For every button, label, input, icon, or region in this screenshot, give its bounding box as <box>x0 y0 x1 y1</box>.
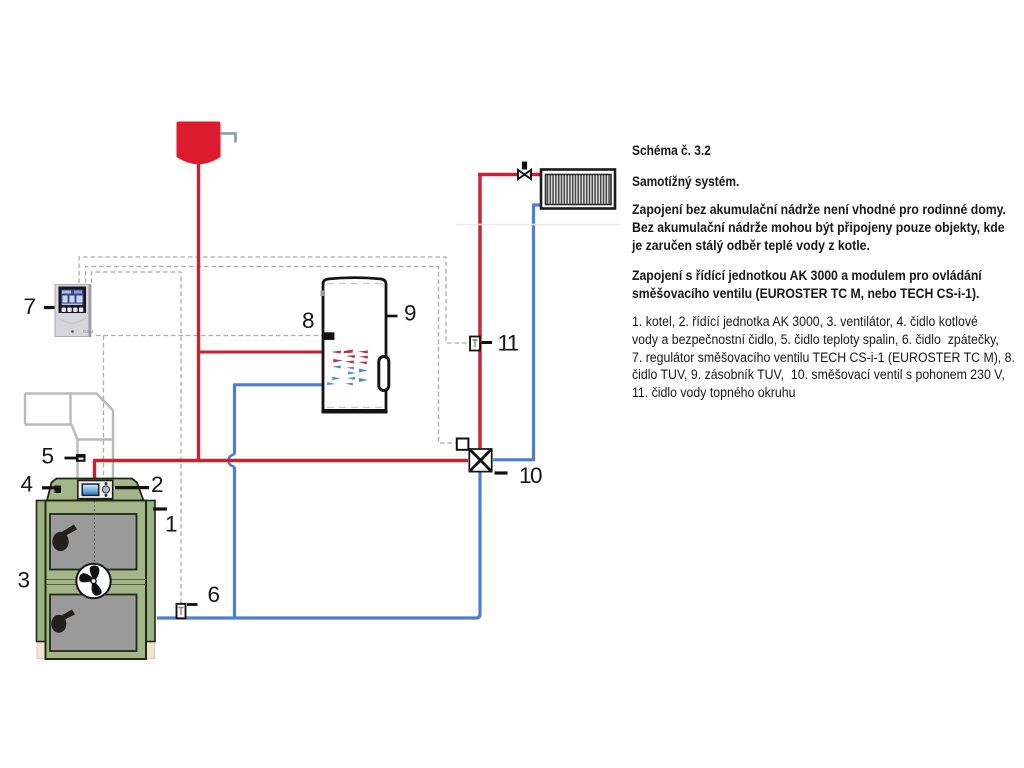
svg-text:2: 2 <box>151 472 164 497</box>
svg-text:7: 7 <box>24 294 37 319</box>
svg-text:4: 4 <box>21 472 34 497</box>
svg-text:5: 5 <box>42 444 55 469</box>
svg-text:GSM: GSM <box>83 329 94 334</box>
svg-text:1: 1 <box>165 512 178 537</box>
svg-text:11: 11 <box>498 331 519 356</box>
svg-text:10: 10 <box>519 463 542 488</box>
svg-text:8: 8 <box>302 308 315 333</box>
svg-text:9: 9 <box>404 301 417 326</box>
svg-text:6: 6 <box>208 582 221 607</box>
svg-text:3: 3 <box>18 568 31 593</box>
